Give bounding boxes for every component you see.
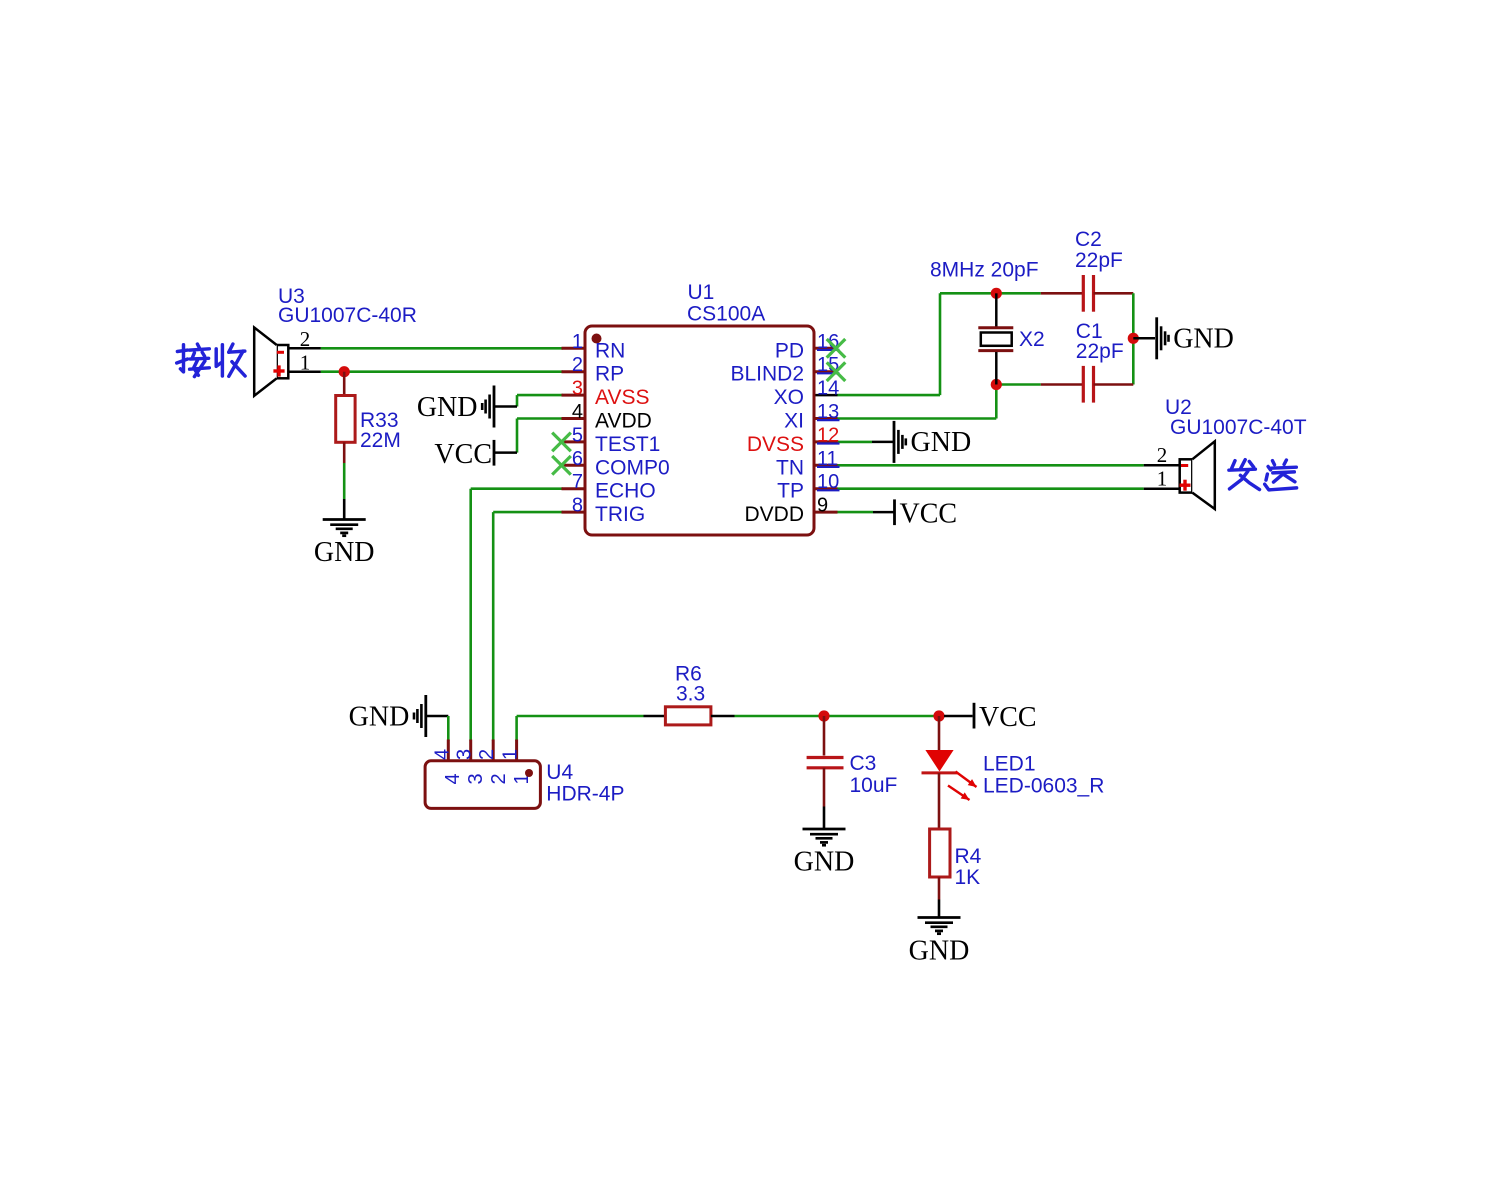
svg-text:VCC: VCC (434, 439, 492, 470)
svg-text:U1: U1 (688, 281, 715, 304)
svg-text:CS100A: CS100A (687, 303, 765, 326)
svg-text:X2: X2 (1019, 328, 1045, 351)
svg-text:AVSS: AVSS (595, 386, 649, 409)
svg-text:ECHO: ECHO (595, 480, 656, 503)
svg-text:GND: GND (417, 392, 478, 423)
svg-text:GND: GND (794, 847, 855, 878)
svg-text:2: 2 (488, 773, 510, 784)
svg-text:GND: GND (909, 936, 970, 967)
svg-text:PD: PD (775, 339, 804, 362)
svg-text:3: 3 (572, 378, 583, 400)
svg-text:XI: XI (784, 410, 804, 433)
svg-text:3: 3 (454, 749, 476, 760)
svg-text:8MHz 20pF: 8MHz 20pF (930, 259, 1039, 282)
svg-text:C2: C2 (1075, 228, 1102, 251)
svg-text:VCC: VCC (979, 702, 1037, 733)
svg-text:TP: TP (777, 480, 804, 503)
svg-text:2: 2 (1157, 443, 1168, 467)
svg-text:6: 6 (572, 448, 583, 470)
svg-text:9: 9 (817, 495, 828, 517)
svg-text:8: 8 (572, 495, 583, 517)
svg-text:COMP0: COMP0 (595, 456, 670, 479)
svg-text:5: 5 (572, 424, 583, 446)
svg-text:RN: RN (595, 339, 625, 362)
svg-text:22pF: 22pF (1075, 249, 1123, 272)
svg-text:GU1007C-40R: GU1007C-40R (278, 304, 417, 327)
svg-text:VCC: VCC (900, 498, 958, 529)
svg-text:DVSS: DVSS (747, 433, 804, 456)
svg-text:22M: 22M (360, 429, 401, 452)
svg-text:3.3: 3.3 (676, 683, 705, 706)
svg-text:TN: TN (776, 456, 804, 479)
svg-text:7: 7 (572, 471, 583, 493)
svg-text:TRIG: TRIG (595, 503, 645, 526)
svg-text:RP: RP (595, 363, 624, 386)
svg-text:TEST1: TEST1 (595, 433, 660, 456)
svg-text:2: 2 (572, 354, 583, 376)
svg-text:2: 2 (476, 749, 498, 760)
svg-text:GU1007C-40T: GU1007C-40T (1170, 416, 1307, 439)
svg-text:R4: R4 (955, 845, 982, 868)
svg-text:4: 4 (431, 749, 453, 760)
svg-text:4: 4 (442, 773, 464, 784)
svg-text:U4: U4 (546, 761, 573, 784)
svg-text:AVDD: AVDD (595, 410, 652, 433)
svg-text:2: 2 (300, 327, 311, 351)
svg-text:1: 1 (300, 351, 311, 375)
svg-text:GND: GND (349, 701, 410, 732)
svg-text:GND: GND (1173, 324, 1234, 355)
svg-text:1: 1 (572, 331, 583, 353)
svg-text:DVDD: DVDD (744, 503, 804, 526)
svg-text:22pF: 22pF (1076, 340, 1124, 363)
svg-text:LED-0603_R: LED-0603_R (983, 775, 1104, 798)
svg-text:XO: XO (774, 386, 804, 409)
svg-text:4: 4 (572, 401, 583, 423)
svg-text:GND: GND (911, 427, 972, 458)
svg-text:1K: 1K (955, 866, 981, 889)
svg-text:1: 1 (1157, 467, 1168, 491)
svg-text:BLIND2: BLIND2 (730, 363, 804, 386)
svg-text:10uF: 10uF (850, 774, 898, 797)
svg-text:HDR-4P: HDR-4P (546, 783, 624, 806)
svg-text:LED1: LED1 (983, 753, 1036, 776)
svg-text:C3: C3 (850, 752, 877, 775)
svg-text:GND: GND (314, 537, 375, 568)
svg-text:3: 3 (465, 773, 487, 784)
svg-text:1: 1 (500, 749, 522, 760)
